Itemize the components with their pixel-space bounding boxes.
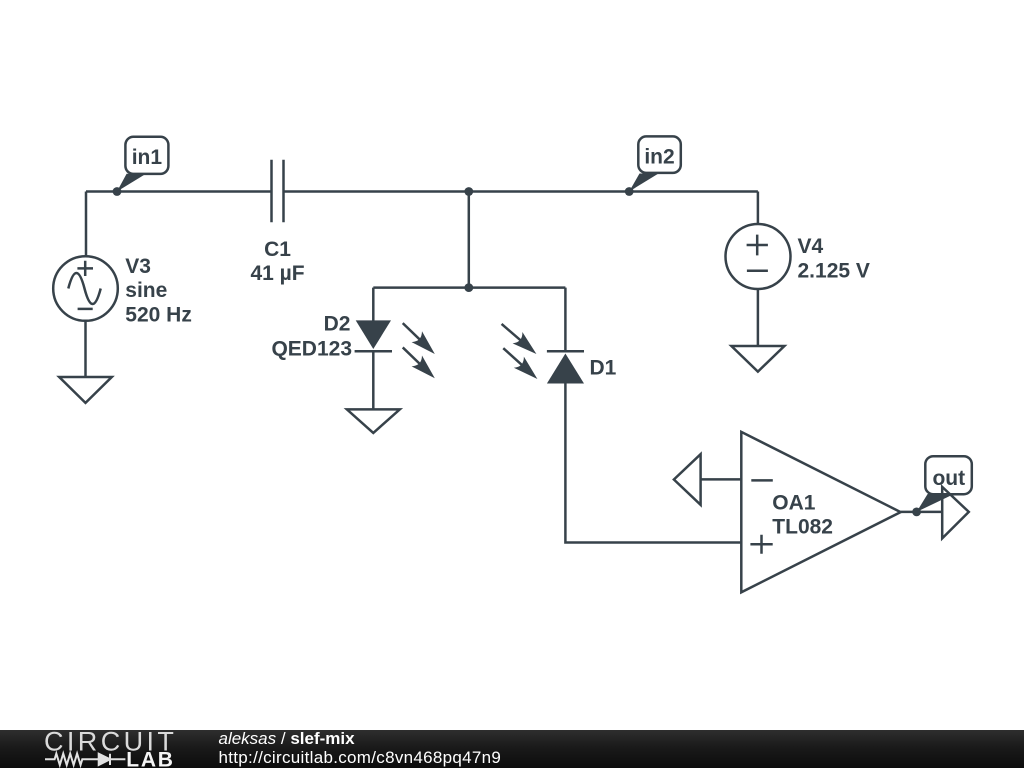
output port triangle xyxy=(942,487,969,539)
svg-text:V4: V4 xyxy=(798,235,824,258)
flag out tail xyxy=(917,494,954,512)
op-amp OA1 xyxy=(741,432,900,592)
node junction top net xyxy=(464,187,473,196)
flag in1 xyxy=(117,137,168,192)
node dot in2 xyxy=(625,187,634,196)
ground below V3 xyxy=(59,321,112,403)
svg-text:V3: V3 xyxy=(125,255,151,278)
svg-text:LAB: LAB xyxy=(126,748,174,768)
voltage source V3 xyxy=(53,256,118,321)
svg-text:2.125 V: 2.125 V xyxy=(798,260,870,283)
input port at op-amp minus xyxy=(674,454,701,505)
node dot at op-amp output xyxy=(912,508,921,517)
label D2 QED123 xyxy=(271,313,352,361)
wire: op-amp output to out port xyxy=(901,511,943,514)
LED D2 (QED123) xyxy=(355,320,392,351)
wire: vertical from corner down to V3 top xyxy=(85,192,88,257)
CircuitLab logo resistor-diode squiggle xyxy=(45,754,125,765)
wire: D2 cathode to ground xyxy=(372,351,375,409)
svg-text:OA1: OA1 xyxy=(772,491,816,514)
label V3 sine 520 Hz xyxy=(125,255,192,326)
capacitor C1 xyxy=(272,160,284,223)
flag in2 xyxy=(629,136,681,191)
wire: V4 bottom to ground xyxy=(757,289,760,346)
svg-text:in2: in2 xyxy=(644,146,674,169)
svg-text:out: out xyxy=(932,467,965,490)
svg-text:D2: D2 xyxy=(324,313,351,336)
svg-text:520 Hz: 520 Hz xyxy=(125,303,192,326)
node dot in1 xyxy=(113,187,122,196)
wire: middle net between D2 and D1 xyxy=(373,286,565,289)
wire: D1 cathode stub xyxy=(564,288,567,352)
footer bar xyxy=(0,730,1024,768)
wire: op-amp minus input stub to port xyxy=(701,478,742,481)
svg-text:C1: C1 xyxy=(264,238,291,261)
wire: D1 anode down and right to op-amp + input xyxy=(565,384,741,543)
label C1 41 uF xyxy=(250,238,304,285)
D1 incident light arrow 2 xyxy=(498,343,542,385)
D2 emission arrow 2 xyxy=(398,342,440,384)
svg-text:QED123: QED123 xyxy=(271,338,352,361)
svg-text:in1: in1 xyxy=(132,146,163,169)
wire: C1 right plate to corner above V4 xyxy=(284,190,758,193)
svg-text:sine: sine xyxy=(125,279,167,302)
D2 emission arrow 1 xyxy=(398,318,440,360)
svg-text:D1: D1 xyxy=(590,357,617,380)
wire: top net from V3 corner to C1 left plate xyxy=(86,190,272,193)
svg-text:aleksas / slef-mix: aleksas / slef-mix xyxy=(219,729,356,748)
svg-text:41 µF: 41 µF xyxy=(250,262,304,285)
svg-text:http://circuitlab.com/c8vn468p: http://circuitlab.com/c8vn468pq47n9 xyxy=(219,748,502,767)
ground below D2 xyxy=(347,409,400,433)
label OA1 TL082 xyxy=(772,491,833,538)
wire: vertical from top net junction down to middle net xyxy=(468,192,471,288)
wire: V4 top stub xyxy=(757,192,760,225)
label V4 2.125 V xyxy=(798,235,870,283)
node junction middle net xyxy=(464,283,473,292)
voltage source V4 xyxy=(726,224,791,289)
svg-text:TL082: TL082 xyxy=(772,515,833,538)
ground below V4 xyxy=(731,346,784,372)
wire: D2 anode stub xyxy=(372,288,375,321)
flag out xyxy=(925,456,972,494)
D1 incident light arrow 1 xyxy=(497,318,542,359)
photodiode D1 xyxy=(547,351,584,383)
